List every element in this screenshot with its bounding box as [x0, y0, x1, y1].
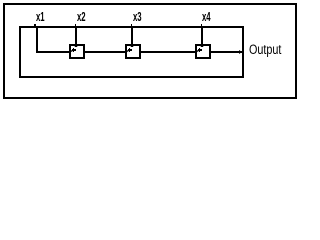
label x2: [77, 11, 86, 24]
wire x2 vertical drop into adder 1: [75, 27, 77, 47]
tap tick x2: [75, 24, 77, 27]
adder U1 left input arrowhead: [71, 50, 73, 52]
wire x3 vertical drop into adder 2: [131, 27, 133, 47]
delay-line box: [19, 26, 244, 78]
wire x4 vertical drop into adder 3: [201, 27, 203, 47]
adder U1 plus sign: [72, 49, 76, 50]
wire x1 vertical drop: [36, 27, 38, 53]
tap tick x1: [34, 24, 36, 27]
output arrowhead at box edge: [239, 50, 242, 54]
adder U3 left input arrowhead: [197, 50, 199, 52]
tap tick x4: [201, 24, 203, 27]
label x3: [133, 11, 142, 24]
label x1: [36, 11, 45, 24]
wire x1 horizontal to adder 1: [36, 51, 71, 53]
wire adder2 to adder3: [139, 51, 197, 53]
label Output: [249, 43, 281, 57]
outer frame: [3, 3, 297, 99]
adder U2 left input arrowhead: [127, 50, 129, 52]
adder U3 plus sign: [198, 49, 202, 50]
tap tick x3: [131, 24, 133, 27]
adder U2 plus sign: [128, 49, 132, 50]
adder U3 top input arrowhead: [200, 46, 204, 47]
label x4: [202, 11, 211, 24]
adder U1 top input arrowhead: [74, 46, 78, 47]
adder U1 box: [69, 44, 85, 59]
adder U2 top input arrowhead: [130, 46, 134, 47]
adder U2 box: [125, 44, 141, 59]
wire adder1 to adder2: [83, 51, 127, 53]
adder U3 box: [195, 44, 211, 59]
wire adder3 to output edge: [209, 51, 243, 53]
